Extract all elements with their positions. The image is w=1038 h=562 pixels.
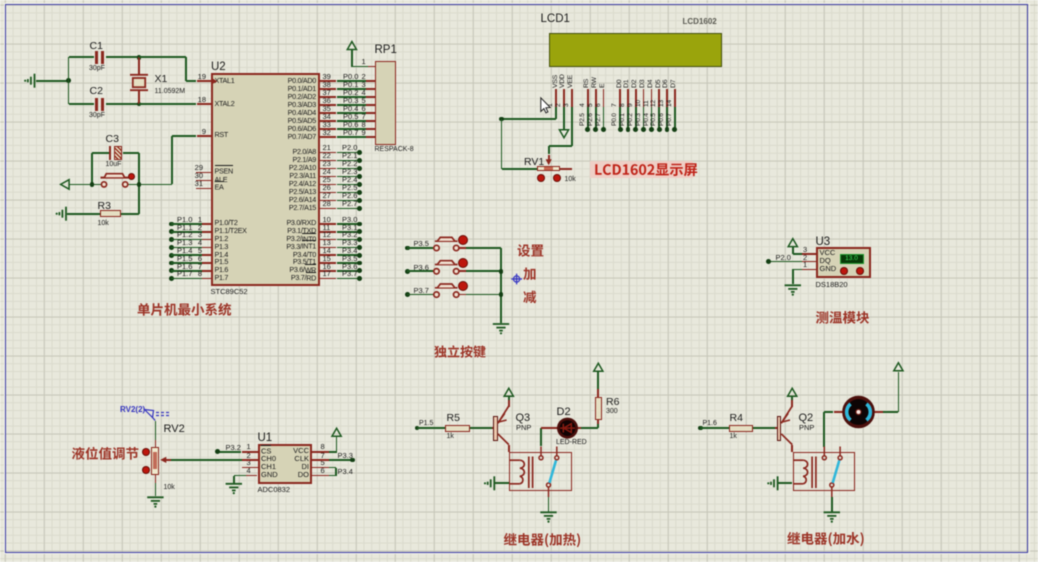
U2 pin 18 — [192, 96, 206, 104]
power terminal above RP1 — [347, 42, 356, 50]
U2 pin 19 — [192, 73, 206, 81]
LED D2 body — [558, 419, 576, 437]
red label 单片机最小系统 — [138, 303, 232, 316]
net P2.1 wire — [320, 160, 336, 162]
wire C1 row to XTAL1 — [139, 56, 186, 58]
LCD pin D1 — [624, 79, 631, 87]
LED D2 wire from relay — [540, 428, 542, 446]
DS18B20 label — [816, 281, 848, 289]
U3 red dot 1 — [841, 268, 847, 274]
ground under relay RL2 — [824, 512, 840, 522]
wire C3 right leg down to R3 — [138, 153, 140, 214]
DS18B20 module body — [816, 247, 872, 279]
U2 right label P3.x — [252, 266, 316, 274]
red label jian — [523, 291, 536, 304]
net P2.4 wire — [320, 184, 336, 186]
wire VSS to RV1 left — [555, 107, 557, 120]
RP1 pin 1 wire to power — [351, 50, 353, 67]
U1 right label 8 — [276, 447, 309, 455]
button symbol P3.6 — [434, 261, 459, 274]
wire button to RST branch — [128, 184, 172, 186]
relay RL1 (heater) body — [509, 452, 572, 491]
U2 right label P2.4/A12 — [252, 180, 316, 188]
net P0.2 wire U2 to RP1 — [320, 96, 336, 98]
motor symbol — [844, 397, 873, 426]
relay RL2 contact poles — [822, 447, 842, 498]
ground left of relay RL1 — [494, 482, 509, 484]
U3 pin 3 VCC wire to power — [802, 253, 816, 255]
RV1 wiper arrow — [548, 155, 550, 162]
red label cewen mokuai — [816, 311, 869, 324]
RV2 red dot bottom — [143, 467, 149, 473]
U2 right label P0.2/AD2 — [252, 93, 316, 101]
LCD pin RW — [592, 77, 599, 88]
U3 label VCC — [820, 249, 836, 257]
blue probe RV2(2) — [145, 410, 172, 421]
crystal X1 — [138, 57, 140, 74]
reset button symbol — [101, 174, 129, 187]
push button P3.7 — [405, 292, 410, 297]
U2 right label P2.5/A13 — [252, 188, 316, 196]
U1 right label 6 — [276, 471, 309, 479]
U2 right label P0.7/AD7 — [252, 133, 316, 141]
U1 left label 1 — [261, 447, 271, 455]
LCD pin D4 — [648, 79, 655, 87]
U2 left label P1.7 — [215, 274, 229, 282]
U3 pin 1 GND wire — [802, 269, 816, 271]
resistor R3 10k — [67, 213, 100, 215]
net P0.3 wire U2 to RP1 — [320, 104, 336, 106]
U3 label GND — [820, 265, 837, 273]
relay RL1 coil — [510, 457, 533, 489]
U1 left label 4 — [261, 471, 278, 479]
LCD pin E — [600, 83, 607, 87]
reset: RST wire — [197, 135, 211, 137]
U2 right label P2.6/A14 — [252, 196, 316, 204]
U2 left label P1.0/T2 — [215, 219, 238, 227]
LCD1602 screen body — [549, 33, 722, 67]
U3 label — [816, 236, 831, 249]
wire net P1.0 — [169, 222, 174, 227]
wire relay RL2 to motor — [823, 412, 825, 447]
wire vertical C1-C2 left — [68, 57, 70, 104]
ground terminal left of C1/C2 — [24, 74, 34, 88]
U2 left label P1.2 — [215, 235, 229, 243]
U1 right label 5 — [276, 463, 309, 471]
LCD pin VEE — [568, 74, 575, 87]
U1 pin2 CH0 stub — [242, 459, 258, 461]
wire net P1.7 — [169, 276, 174, 281]
Q2 collector wire to relay — [791, 445, 793, 452]
U2 pins 29/30/31 PSEN ALE EA stubs — [196, 172, 211, 174]
net P0.0 wire U2 to RP1 — [320, 80, 336, 82]
wire net P1.2 — [169, 237, 174, 242]
red label jia — [523, 268, 535, 281]
relay RL2 (water) body — [793, 452, 856, 491]
common button wire vertical — [500, 248, 502, 323]
net P3.5 wire — [320, 262, 336, 264]
wire net P1.1 — [169, 229, 174, 234]
U1 pin3 CH1 stub — [242, 467, 258, 469]
red label jidianqi jiare — [504, 533, 580, 547]
RV2 wiper arrowhead — [160, 457, 166, 463]
push button P3.5 — [405, 246, 410, 251]
red label yeweizhi tiaojie — [72, 447, 138, 460]
node dot C2-XTAL2 — [137, 102, 142, 107]
U2 right label P3.x — [252, 243, 316, 251]
U2 left label P1.1/T2EX — [215, 227, 247, 235]
LCD1 label — [541, 13, 570, 26]
U2 right label P3.x — [252, 219, 316, 227]
resistor R6 300 — [597, 420, 599, 424]
power terminal above Q3 — [504, 388, 513, 396]
net P3.7 wire — [320, 278, 336, 280]
capacitor C1 — [69, 56, 94, 58]
red label LCD1602xianshiping — [595, 163, 697, 176]
U2 right label P2.7/A15 — [252, 204, 316, 212]
red label duli anjian — [434, 345, 485, 358]
LCD pin RS — [584, 78, 591, 87]
wire net P1.5 — [169, 261, 174, 266]
crystal X1 symbol — [130, 75, 148, 90]
pin 19 XTAL1 stub — [197, 80, 211, 82]
relay RL2 coil — [793, 457, 816, 489]
net P0.4 wire U2 to RP1 — [320, 112, 336, 114]
ground below relay RL2 — [831, 497, 833, 512]
power terminal above Q2 — [788, 388, 797, 396]
wire net P1.6 — [169, 268, 174, 273]
wire C3 left leg down — [91, 153, 93, 184]
Q3 emitter/collector lines — [498, 406, 509, 445]
U1 pin6 DO wire net P3.4 — [312, 475, 328, 477]
cyan contact line RL2 — [833, 460, 840, 483]
RV2 bottom wire and ground — [155, 475, 157, 483]
U1 pin1 CS wire net P3.2 — [242, 451, 258, 453]
net P3.0 wire — [320, 223, 336, 225]
net P3.2 wire — [320, 239, 336, 241]
U1 left label 2 — [261, 455, 276, 463]
wire D2 to R6 — [577, 427, 581, 429]
MCU U2 STC89C52 body — [211, 73, 320, 286]
button symbol P3.7 — [434, 284, 459, 297]
motor leads — [834, 411, 845, 413]
wire P3.6 to common — [459, 270, 466, 272]
U2 right label P3.x — [252, 235, 316, 243]
net P2.3 wire — [320, 176, 336, 178]
mouse cursor arrow — [541, 98, 550, 113]
U2 right label P0.3/AD3 — [252, 101, 316, 109]
ground terminal left of RL2 coil — [767, 476, 777, 490]
ground under relay RL1 — [540, 512, 556, 522]
U2 left label RST — [215, 131, 228, 139]
LCD pin D5 — [656, 79, 663, 87]
resistor R4 1k — [729, 425, 754, 432]
U2 right label P2.1/A9 — [252, 156, 316, 164]
net P3.3 wire — [320, 247, 336, 249]
U2 left label P1.6 — [215, 266, 229, 274]
U1 right label 7 — [276, 455, 309, 463]
U1 pin7 CLK wire net P3.3 — [312, 459, 328, 461]
U1 left label 3 — [261, 463, 276, 471]
U2 left label P1.3 — [215, 243, 229, 251]
Q2 emitter/collector lines — [781, 406, 792, 445]
wire net P1.4 — [169, 253, 174, 258]
U2 left label XTAL1 — [215, 77, 235, 85]
probe RV2(2) — [120, 405, 145, 414]
U2 left label <span style= — [215, 184, 224, 192]
node dot reset right — [137, 182, 142, 187]
RV2 top wire — [155, 421, 157, 441]
VDD down arrow terminal — [559, 130, 568, 138]
LCD pin D3 — [640, 79, 647, 87]
red label jidianqi jiashui — [787, 532, 863, 546]
power terminal above motor — [894, 363, 903, 371]
U2 left label <span style= — [215, 168, 233, 176]
U2 pin 9 — [192, 128, 206, 136]
LCD pin D6 — [663, 79, 670, 87]
ADC U1 body — [258, 444, 313, 484]
transistor Q3 PNP — [492, 427, 494, 429]
power terminal above R6 — [594, 363, 603, 371]
U2 right label P2.2/A10 — [252, 164, 316, 172]
RV1 wiper arrowhead — [546, 159, 552, 165]
button red actuator P3.5 — [459, 236, 467, 244]
LCD pin D0 — [617, 79, 624, 87]
U2 left label XTAL2 — [215, 100, 235, 108]
LCD pin D2 — [632, 79, 639, 87]
node junction C1/C2 left branch — [66, 78, 71, 83]
ground below RV2 — [147, 497, 163, 507]
U2 right label P0.6/AD6 — [252, 125, 316, 133]
net P2.0 wire — [320, 152, 336, 154]
net P3.4 wire — [320, 254, 336, 256]
ground terminal left of RL1 coil — [484, 476, 494, 490]
U2 right label P0.0/AD0 — [252, 77, 316, 85]
LCD pin D7 — [671, 79, 678, 87]
wire P3.5 to common — [459, 247, 466, 249]
LCD pin VDD — [560, 74, 567, 88]
net P2.5 wire — [320, 192, 336, 194]
node dot reset left — [90, 182, 95, 187]
U2 right label P0.5/AD5 — [252, 117, 316, 125]
U2 right label P3.x — [252, 251, 316, 259]
U1 pin5 DI wire — [312, 467, 328, 469]
U2 right label P3.x — [252, 227, 316, 235]
net P0.1 wire U2 to RP1 — [320, 88, 336, 90]
pin 18 XTAL2 stub — [197, 103, 211, 105]
button red actuator P3.6 — [459, 259, 467, 267]
wire P3.7 to common — [459, 294, 466, 296]
wire VEE to RV1 wiper — [571, 107, 573, 146]
button red actuator P3.7 — [459, 282, 467, 290]
capacitor C2 — [69, 103, 94, 105]
push button P3.6 — [405, 269, 410, 274]
potentiometer RV1 — [537, 166, 559, 172]
wire motor to power — [898, 372, 900, 413]
wire C2 row to XTAL2 — [139, 103, 197, 105]
U1 pin8 VCC wire to power — [312, 451, 328, 453]
U3 red dot 2 — [857, 268, 863, 274]
U2 left label ALE — [215, 176, 228, 184]
net P3.1 wire — [320, 231, 336, 233]
net P2.7 wire — [320, 208, 336, 210]
U3 temperature display 13.0 — [840, 254, 864, 263]
U3 label DQ — [820, 257, 831, 265]
U2 right label P2.3/A11 — [252, 172, 316, 180]
U2 left label P1.5 — [215, 258, 229, 266]
cyan contact line RL1 — [549, 460, 556, 483]
ground left of relay RL2 — [778, 482, 793, 484]
U2 right label P2.0/A8 — [252, 148, 316, 156]
RV2 wiper arrow to CH0 — [165, 459, 171, 461]
U2 left label P1.4 — [215, 251, 229, 259]
label LCD1602显示屏 — [590, 161, 693, 179]
wire net P1.3 — [169, 245, 174, 250]
RV1 red dot right — [554, 175, 560, 181]
red label shezhi — [518, 244, 544, 257]
RV1 red dot left — [538, 175, 544, 181]
RV2 red dot top — [143, 449, 149, 455]
potentiometer RV2 — [151, 447, 159, 475]
U2 right label P3.x — [252, 258, 316, 266]
U1 pin4 GND wire to ground — [246, 475, 257, 477]
LCD1602 type label — [683, 18, 717, 27]
net P0.6 wire U2 to RP1 — [320, 128, 336, 130]
net P3.6 wire — [320, 270, 336, 272]
net P2.6 wire — [320, 200, 336, 202]
power terminal left-pointing at reset row — [61, 180, 70, 190]
reset button red actuator dot — [129, 174, 135, 180]
U3 pin 2 DQ wire net P2.0 — [802, 261, 816, 263]
net P0.5 wire U2 to RP1 — [320, 120, 336, 122]
resistor pack RP1 — [375, 61, 396, 145]
power terminal down at VDD — [563, 107, 565, 130]
ground below U1 — [226, 484, 242, 494]
U2 right label P0.4/AD4 — [252, 109, 316, 117]
capacitor C3 (10uF electrolytic) — [92, 152, 109, 154]
net P1.5 wire — [415, 426, 420, 431]
ground below U3 — [785, 285, 801, 295]
blue crosshair marker — [511, 274, 522, 285]
net P1.6 wire — [698, 426, 703, 431]
relay RL1 contact poles — [539, 447, 559, 498]
power terminal (left arrow) reset — [69, 184, 101, 186]
wire ground to C1/C2 branch — [36, 80, 69, 82]
LCD pin VSS — [553, 74, 560, 87]
node dot C1-XTAL1 — [137, 55, 142, 60]
XTAL1 input arrow marker — [212, 78, 218, 84]
ground below relay RL1 — [548, 497, 550, 512]
ground below buttons — [493, 324, 509, 334]
net P2.2 wire — [320, 168, 336, 170]
power terminal above U3 — [788, 239, 797, 247]
net P0.7 wire U2 to RP1 — [320, 136, 336, 138]
U2 right label P3.x — [252, 274, 316, 282]
resistor R5 1k — [445, 425, 470, 432]
U2 right label P0.1/AD1 — [252, 85, 316, 93]
button symbol P3.5 — [434, 237, 459, 250]
transistor Q2 PNP — [775, 427, 777, 429]
power terminal above U1 — [332, 428, 341, 436]
Q3 collector wire to relay — [508, 445, 510, 452]
LED D2 (LED-RED) — [557, 406, 571, 418]
